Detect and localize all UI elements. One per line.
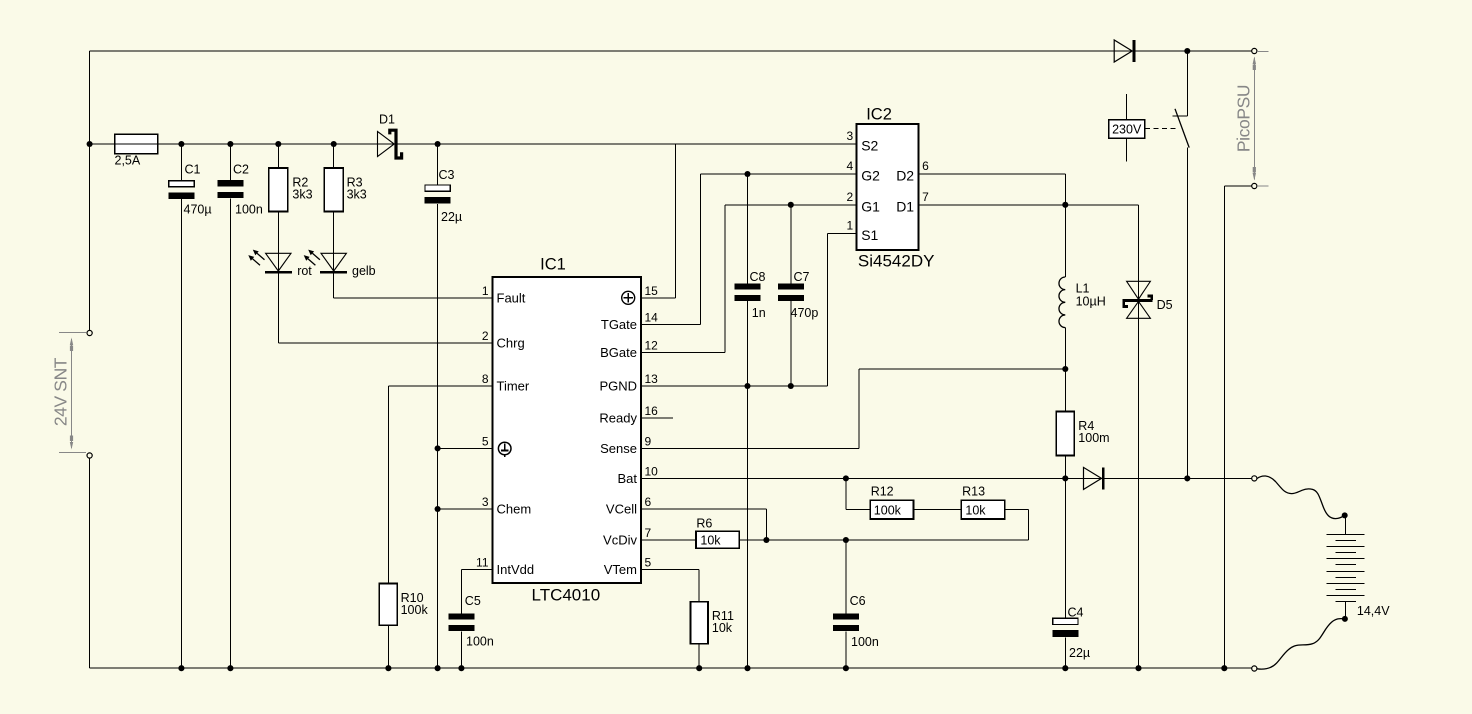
svg-text:Chem: Chem [497,502,532,517]
svg-text:IC2: IC2 [866,106,892,124]
svg-text:230V: 230V [1112,123,1142,137]
svg-text:C2: C2 [233,163,249,177]
svg-text:14,4V: 14,4V [1357,604,1390,618]
svg-text:2: 2 [482,329,489,343]
svg-text:9: 9 [645,434,652,448]
svg-text:13: 13 [645,372,659,386]
svg-text:G1: G1 [861,198,880,214]
svg-text:22µ: 22µ [441,210,462,224]
svg-text:Timer: Timer [497,379,530,394]
svg-text:100n: 100n [466,635,494,649]
svg-text:R12: R12 [871,485,894,499]
svg-text:L1: L1 [1076,282,1090,296]
svg-text:5: 5 [482,434,489,448]
svg-text:100k: 100k [874,504,902,518]
svg-text:10k: 10k [965,504,986,518]
svg-text:C5: C5 [465,594,481,608]
svg-text:Fault: Fault [497,291,526,306]
svg-text:10µH: 10µH [1076,295,1106,309]
svg-text:3k3: 3k3 [292,188,312,202]
svg-text:VcDiv: VcDiv [603,533,637,548]
svg-text:3: 3 [847,129,854,143]
svg-text:C1: C1 [185,163,201,177]
svg-text:10k: 10k [700,534,721,548]
svg-text:C6: C6 [850,594,866,608]
svg-text:2,5A: 2,5A [115,154,141,168]
svg-text:C3: C3 [439,168,455,182]
svg-text:R13: R13 [962,485,985,499]
svg-text:22µ: 22µ [1069,646,1090,660]
svg-text:C4: C4 [1068,606,1084,620]
svg-text:7: 7 [645,526,652,540]
svg-text:1: 1 [847,218,854,232]
svg-text:D2: D2 [896,168,914,184]
svg-text:4: 4 [847,159,854,173]
svg-text:100m: 100m [1078,431,1109,445]
svg-text:IntVdd: IntVdd [497,562,535,577]
svg-text:PicoPSU: PicoPSU [1234,85,1254,152]
svg-text:1: 1 [482,284,489,298]
svg-text:Sense: Sense [600,441,637,456]
svg-text:8: 8 [482,372,489,386]
svg-text:7: 7 [922,190,929,204]
svg-text:rot: rot [297,264,312,278]
svg-text:5: 5 [645,556,652,570]
svg-text:Ready: Ready [599,411,637,426]
svg-text:3: 3 [482,495,489,509]
svg-text:D1: D1 [379,113,395,127]
svg-text:15: 15 [645,284,659,298]
svg-text:3k3: 3k3 [347,188,367,202]
svg-text:11: 11 [476,556,489,570]
svg-text:VTem: VTem [604,562,637,577]
svg-text:100k: 100k [401,603,429,617]
svg-text:S1: S1 [861,227,878,243]
svg-text:10k: 10k [712,621,733,635]
svg-text:6: 6 [645,495,652,509]
svg-text:16: 16 [645,404,659,418]
svg-text:100n: 100n [851,635,879,649]
svg-text:C8: C8 [750,270,766,284]
svg-text:PGND: PGND [599,379,637,394]
svg-text:Si4542DY: Si4542DY [858,252,935,271]
svg-text:100n: 100n [235,203,263,217]
svg-text:IC1: IC1 [540,256,566,274]
svg-text:Chrg: Chrg [497,336,525,351]
svg-text:C7: C7 [794,270,810,284]
svg-text:470µ: 470µ [184,203,212,217]
svg-text:14: 14 [645,311,659,325]
svg-text:LTC4010: LTC4010 [532,586,601,605]
svg-text:VCell: VCell [606,502,637,517]
svg-text:1n: 1n [752,306,766,320]
svg-text:470p: 470p [791,306,819,320]
svg-text:S2: S2 [861,138,878,154]
svg-text:Bat: Bat [617,471,637,486]
svg-text:BGate: BGate [600,345,637,360]
svg-text:12: 12 [645,338,659,352]
svg-text:G2: G2 [861,168,880,184]
svg-text:24V SNT: 24V SNT [51,357,71,426]
svg-text:2: 2 [847,190,854,204]
svg-text:R6: R6 [696,517,712,531]
svg-text:6: 6 [922,159,929,173]
svg-text:D5: D5 [1157,298,1173,312]
svg-text:D1: D1 [896,198,914,214]
svg-text:gelb: gelb [352,264,376,278]
svg-text:10: 10 [645,464,659,478]
svg-text:TGate: TGate [601,317,637,332]
